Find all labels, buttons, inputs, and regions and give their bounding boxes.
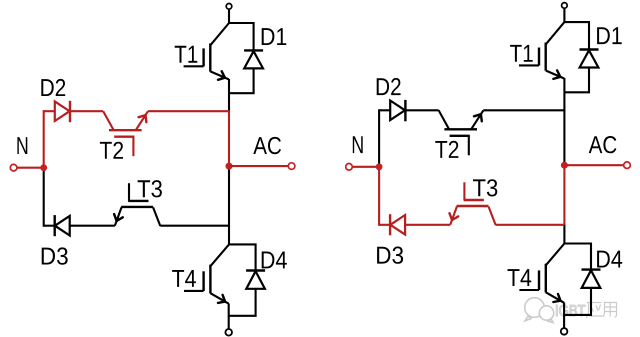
wire spine T1-emitter to T2 row (left circuit) xyxy=(228,79,230,111)
wire T3 collector to spine (left circuit) xyxy=(160,225,229,227)
label T4 (left circuit) xyxy=(172,270,196,287)
right circuit: return current path AC-T3-D3-N highlighted xyxy=(346,3,631,335)
transistor T1 (right circuit) xyxy=(519,22,564,79)
diode D4 (left circuit) xyxy=(229,244,265,315)
label D3 (left circuit) xyxy=(42,247,68,264)
terminal AC (left circuit) xyxy=(288,163,295,170)
label T4 (right circuit) xyxy=(508,269,532,286)
terminal DC- (left circuit) xyxy=(225,329,232,336)
junction node N (left circuit) xyxy=(40,164,47,171)
label D4 (left circuit) xyxy=(262,252,287,269)
diode D3 (left circuit) xyxy=(44,215,115,236)
junction node AC (right circuit) xyxy=(561,162,568,169)
transistor T2 (right circuit) xyxy=(439,110,484,155)
watermark text 应用 xyxy=(586,303,617,319)
wire xyxy=(563,8,565,23)
wire T3 collector to spine (right circuit) xyxy=(496,224,565,226)
label T1 (left circuit) xyxy=(175,46,198,63)
junction node N (right circuit) xyxy=(376,163,383,170)
wire T4 emitter to DC- terminal (left circuit) xyxy=(228,304,230,329)
label D1 (left circuit) xyxy=(262,28,287,45)
transistor T4 (left circuit) xyxy=(184,244,229,303)
diode D4 (right circuit) xyxy=(564,244,600,315)
junction node AC (left circuit) xyxy=(226,163,233,170)
wire T2 emitter to spine (left circuit) xyxy=(148,110,229,112)
label D4 (right circuit) xyxy=(597,251,622,268)
wire spine AC node to T3 row (left circuit) xyxy=(228,166,230,227)
wire N junction up to D2 (right circuit) xyxy=(378,109,380,167)
wire spine T1-emitter to T2 row (right circuit) xyxy=(563,78,565,110)
wire AC node to terminal (right circuit) xyxy=(564,164,623,166)
label T2 (right circuit) xyxy=(435,141,458,158)
label D2 (left circuit) xyxy=(41,79,65,96)
diode D2 (right circuit) xyxy=(379,100,439,121)
terminal DC+ (left circuit) xyxy=(226,4,232,10)
terminal N (right circuit) xyxy=(346,164,353,171)
terminal DC- (right circuit) xyxy=(561,328,568,335)
terminal AC (right circuit) xyxy=(624,162,631,169)
transistor T2 (left circuit) xyxy=(103,111,148,156)
terminal DC+ (right circuit) xyxy=(562,3,568,9)
wire T2 emitter to spine (right circuit) xyxy=(483,109,564,111)
wire T4 emitter to DC- terminal (right circuit) xyxy=(563,303,565,328)
wire spine AC node to T3 row (right circuit) xyxy=(563,165,565,226)
label AC (left circuit) xyxy=(253,137,281,154)
wire N terminal to junction (right circuit) xyxy=(353,166,379,168)
label T3 (right circuit) xyxy=(473,179,497,196)
diode D1 (right circuit) xyxy=(564,22,598,92)
terminal N (left circuit) xyxy=(10,164,17,171)
wire spine T2 row to AC node (left circuit) xyxy=(228,110,230,166)
label N (left circuit) xyxy=(17,137,27,154)
label D3 (right circuit) xyxy=(377,247,403,264)
transistor T3 (right circuit) xyxy=(450,182,496,225)
wire N junction down to D3 (left circuit) xyxy=(43,168,45,227)
label T2 (left circuit) xyxy=(100,142,123,159)
watermark WeChat icon xyxy=(525,298,554,323)
diode D2 (left circuit) xyxy=(44,101,103,122)
label D2 (right circuit) xyxy=(377,78,401,95)
diode D1 (left circuit) xyxy=(229,23,263,93)
diode D3 (right circuit) xyxy=(379,214,450,235)
label AC (right circuit) xyxy=(589,136,617,153)
label T1 (right circuit) xyxy=(510,45,533,62)
label T3 (left circuit) xyxy=(138,180,162,197)
wire spine T2 row to AC node (right circuit) xyxy=(563,109,565,165)
transistor T4 (right circuit) xyxy=(519,244,564,303)
transistor T3 (left circuit) xyxy=(114,183,160,226)
wire spine T3 row to T4 (left circuit) xyxy=(228,226,230,245)
wire xyxy=(228,9,230,24)
watermark text IGBT xyxy=(556,305,585,316)
wire N junction down to D3 (right circuit) xyxy=(378,167,380,226)
wire N junction up to D2 (left circuit) xyxy=(43,110,45,168)
transistor T1 (left circuit) xyxy=(184,23,229,80)
wire spine T3 row to T4 (right circuit) xyxy=(563,225,565,244)
label N (right circuit) xyxy=(353,136,363,153)
wire AC node to terminal (left circuit) xyxy=(229,165,288,167)
label D1 (right circuit) xyxy=(597,27,622,44)
wire N terminal to junction (left circuit) xyxy=(17,167,43,169)
